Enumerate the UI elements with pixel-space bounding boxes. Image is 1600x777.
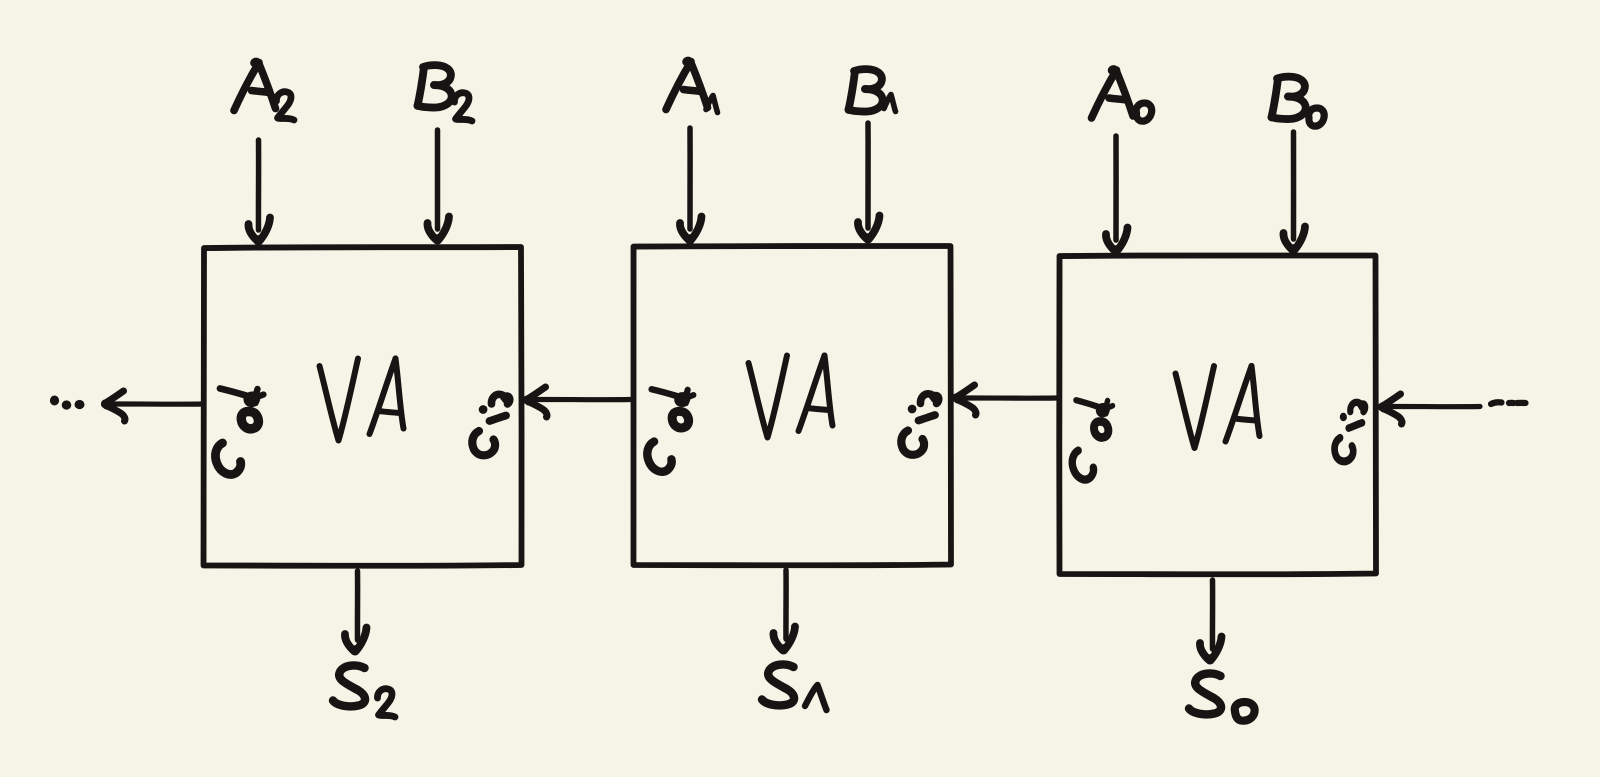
wire B0 input arrow xyxy=(1291,132,1297,239)
VA text box VA1 xyxy=(749,356,833,438)
label A0 xyxy=(1092,69,1134,118)
Cout label box VA1 xyxy=(647,389,693,472)
arrowhead A1 xyxy=(680,217,702,241)
arrowhead B2 xyxy=(427,217,449,241)
label A1 subscript xyxy=(706,96,718,113)
arrowhead into VA0 Cin xyxy=(1382,394,1402,424)
wire S2 output arrow xyxy=(355,571,361,640)
label A2 xyxy=(234,61,276,110)
label S0 xyxy=(1189,673,1221,714)
Cout label box VA2 xyxy=(215,389,263,475)
arrowhead S2 xyxy=(345,628,367,652)
arrowhead into VA2 Cin xyxy=(527,387,547,417)
label A2 subscript xyxy=(276,92,294,120)
wire S1 output arrow xyxy=(783,570,789,639)
full adder box VA1 (middle) xyxy=(633,246,951,565)
full adder box VA0 (right) xyxy=(1059,256,1376,575)
label B2 xyxy=(418,65,452,107)
full adder box VA2 (left) xyxy=(203,247,521,566)
wire B1 input arrow xyxy=(865,123,871,228)
wire A0 input arrow xyxy=(1113,136,1119,240)
label B2 subscript xyxy=(454,93,472,121)
arrowhead left output xyxy=(105,391,125,421)
dashes right ... xyxy=(1491,402,1526,404)
arrowhead S1 xyxy=(773,627,795,651)
wire carry VA1 Cout to VA2 Cin xyxy=(529,397,630,402)
wire carry-in from right dashes into VA0 xyxy=(1384,404,1480,409)
VA text box VA2 xyxy=(320,359,404,441)
dots left ... xyxy=(50,396,85,410)
Cin label box VA1 xyxy=(901,394,938,455)
wire A2 input arrow xyxy=(256,140,262,230)
label B0 xyxy=(1272,77,1306,119)
label B1 subscript xyxy=(884,95,896,112)
arrowhead B0 xyxy=(1283,227,1305,251)
label A1 xyxy=(666,60,708,109)
label S0 subscript xyxy=(1235,702,1255,721)
label S1 xyxy=(762,664,794,705)
arrowhead A0 xyxy=(1106,228,1128,252)
wire carry VA0 Cout to VA1 Cin xyxy=(958,395,1056,400)
wire B2 input arrow xyxy=(435,130,441,229)
arrowhead into VA1 Cin xyxy=(956,385,976,415)
wire Cout VA2 to left dots xyxy=(107,401,203,406)
label S1 subscript xyxy=(805,685,827,710)
wire S0 output arrow xyxy=(1210,580,1216,649)
arrowhead B1 xyxy=(858,216,880,240)
Cout label box VA0 xyxy=(1072,400,1112,479)
wire A1 input arrow xyxy=(687,128,693,229)
VA text box VA0 xyxy=(1176,366,1260,448)
Cin label box VA2 xyxy=(472,394,509,455)
label S2 subscript xyxy=(377,689,395,717)
label S2 xyxy=(333,665,365,706)
arrowhead A2 xyxy=(248,218,270,242)
Cin label box VA0 xyxy=(1335,402,1366,461)
label B1 xyxy=(849,69,883,111)
label A0 subscript xyxy=(1136,103,1152,121)
arrowhead S0 xyxy=(1200,637,1222,661)
label B0 subscript xyxy=(1309,108,1325,126)
